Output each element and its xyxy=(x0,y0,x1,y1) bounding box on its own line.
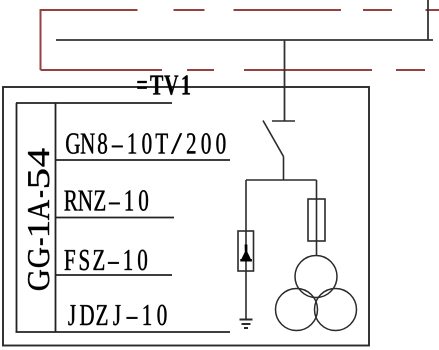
ground bar 3 xyxy=(244,327,248,329)
label RNZ-10 xyxy=(64,190,148,211)
disconnect switch QS top contact bar xyxy=(272,120,295,122)
wire arrester branch drop xyxy=(245,180,247,320)
wire black bus W1 xyxy=(56,39,433,41)
wire red vertical left end xyxy=(40,9,42,70)
voltage transformer TV winding 3 (right) xyxy=(315,289,357,331)
label GG-1A-54 (rotated) xyxy=(28,149,49,291)
cabinet type column right border xyxy=(55,103,57,332)
row underline 3 (FSZ-10) xyxy=(56,274,172,276)
table top line xyxy=(16,102,172,104)
voltage transformer TV winding 2 (left) xyxy=(276,289,318,331)
ground bar 2 xyxy=(242,323,251,325)
wire fuse branch drop xyxy=(316,180,318,256)
label =TV1 xyxy=(137,75,190,95)
busbar red dashed line upper xyxy=(41,9,439,11)
wire feed drop from bus to TV1 xyxy=(284,40,286,121)
label FSZ-10 xyxy=(65,250,148,271)
cabinet outer box xyxy=(3,87,369,346)
fuse FU body xyxy=(308,199,325,241)
cabinet type column left border xyxy=(16,103,18,332)
ground bar 1 xyxy=(240,319,253,321)
row underline 4 (JDZJ-10) / table bottom xyxy=(16,331,231,333)
wire bus riser right xyxy=(427,0,429,40)
wire junction bar xyxy=(246,179,317,181)
row underline 1 (GN8-10T/200) xyxy=(56,159,230,161)
row underline 2 (RNZ-10) xyxy=(56,217,174,219)
disconnect switch QS blade xyxy=(263,121,284,157)
surge arrester F body xyxy=(238,231,254,271)
label GN8-10T/200 xyxy=(66,133,225,154)
surge arrester arrow xyxy=(240,245,252,262)
label JDZJ-10 xyxy=(68,305,166,326)
wire switch to junction xyxy=(283,157,285,181)
busbar red dashed line lower xyxy=(41,69,426,71)
voltage transformer TV winding 1 (top) xyxy=(295,256,337,298)
